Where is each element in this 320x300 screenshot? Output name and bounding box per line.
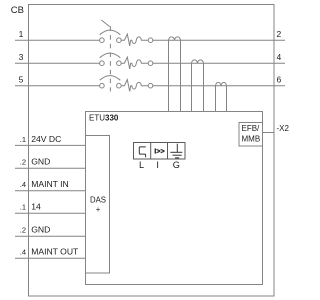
svg-text:GND: GND [31, 225, 50, 235]
svg-text:MAINT IN: MAINT IN [31, 179, 69, 189]
svg-text:.4: .4 [20, 180, 26, 189]
svg-text:.1: .1 [20, 203, 26, 212]
svg-text:.2: .2 [20, 158, 26, 167]
svg-text:DAS: DAS [90, 195, 106, 204]
svg-text:6: 6 [277, 75, 282, 85]
svg-text:CB: CB [11, 5, 24, 16]
svg-text:5: 5 [19, 75, 24, 85]
svg-text:2: 2 [277, 29, 282, 39]
svg-text:MAINT OUT: MAINT OUT [31, 247, 79, 257]
svg-text:.2: .2 [20, 226, 26, 235]
svg-text:+: + [96, 205, 101, 214]
svg-text:ETU330: ETU330 [89, 113, 119, 122]
svg-text:4: 4 [277, 52, 282, 62]
svg-text:1: 1 [19, 29, 24, 39]
svg-text:EFB/: EFB/ [242, 124, 261, 133]
svg-text:I>>: I>> [154, 147, 164, 156]
svg-text:.4: .4 [20, 248, 26, 257]
svg-text:3: 3 [19, 52, 24, 62]
svg-text:MMB: MMB [242, 134, 261, 143]
svg-text:I: I [156, 160, 159, 170]
svg-text:.1: .1 [20, 135, 26, 144]
svg-text:14: 14 [31, 202, 41, 212]
svg-text:G: G [173, 160, 180, 170]
svg-text:GND: GND [31, 157, 50, 167]
svg-text:L: L [139, 160, 144, 170]
svg-text:24V DC: 24V DC [31, 134, 61, 144]
svg-text:-X2: -X2 [277, 124, 290, 133]
